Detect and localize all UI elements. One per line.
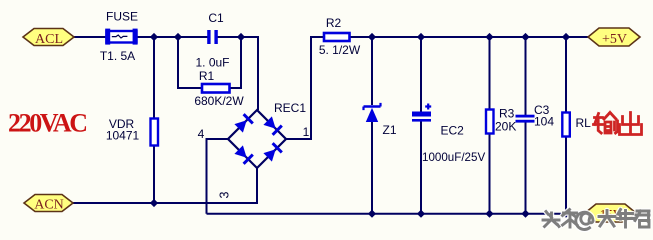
svg-text:220VAC: 220VAC [8,109,88,138]
svg-text:680K/2W: 680K/2W [194,94,244,108]
svg-text:20K: 20K [495,120,516,134]
svg-text:5. 1/2W: 5. 1/2W [319,43,361,57]
svg-text:ACL: ACL [35,32,63,47]
svg-text:1000uF/25V: 1000uF/25V [422,151,485,164]
svg-text:Z1: Z1 [383,123,397,137]
svg-text:T1. 5A: T1. 5A [100,49,135,63]
svg-text:R2: R2 [326,16,342,30]
svg-text:1: 1 [303,125,310,139]
svg-text:104: 104 [534,115,554,129]
svg-text:EC2: EC2 [441,124,465,138]
svg-text:3: 3 [218,191,232,198]
svg-text:R3: R3 [499,107,515,121]
svg-text:+5V: +5V [602,32,627,47]
svg-text:4: 4 [198,127,205,141]
svg-text:REC1: REC1 [274,101,306,115]
svg-text:C1: C1 [208,11,224,25]
svg-text:ACN: ACN [34,198,64,213]
svg-text:R1: R1 [199,69,215,83]
svg-text:1. 0uF: 1. 0uF [195,56,229,70]
svg-text:10471: 10471 [106,129,140,143]
svg-text:RL: RL [576,116,592,130]
svg-text:FUSE: FUSE [106,10,138,24]
